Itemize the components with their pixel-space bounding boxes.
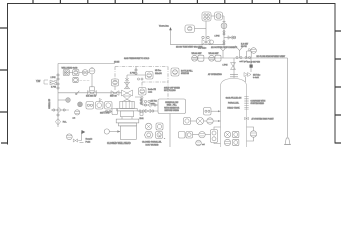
svg-text:BOTTLE FILL: BOTTLE FILL: [181, 71, 193, 73]
instrument PI (square, 4 dots): [63, 69, 69, 75]
wire: vent stack down: [287, 58, 289, 138]
svg-text:1 PSI: 1 PSI: [130, 73, 135, 75]
E-01 marks: [140, 113, 144, 121]
valve (E) on left riser: [44, 80, 57, 85]
tap with label on right wall: [245, 117, 249, 119]
check valve: [75, 91, 79, 95]
svg-text:SYSTEM HEAD: SYSTEM HEAD: [251, 102, 265, 105]
valve F.O. diamond: [55, 119, 60, 125]
svg-text:Sample: Sample: [86, 139, 94, 141]
flange-diamond-flange on riser: [51, 108, 69, 113]
wire: gas supply header horizontal: [58, 63, 115, 65]
instrument cluster by wellhead: circle X: [145, 123, 152, 130]
wellhead stack: spool 2: [121, 111, 134, 117]
signal line (dash-dot) to bottle fill: [115, 67, 168, 100]
svg-text:AT OPERATING: AT OPERATING: [208, 73, 222, 76]
valve on wellhead feed: [111, 91, 119, 96]
bottle fill instrument 2: [139, 88, 147, 96]
svg-text:1 PSI: 1 PSI: [51, 77, 56, 79]
wellhead left gauge: circles and box: [104, 109, 118, 115]
svg-text:Vent to Atm: Vent to Atm: [159, 25, 169, 28]
vessel: head tank walls: [221, 85, 247, 147]
svg-text:PARALLEL: PARALLEL: [228, 102, 240, 105]
wire: vent header: [171, 44, 225, 46]
wellhead stack: cone: [123, 99, 131, 101]
wellhead stack: ribbed spool: [120, 101, 134, 108]
svg-text:1/2 MI: 1/2 MI: [114, 62, 120, 64]
pressure regulator: [221, 22, 227, 29]
chemical line with valve: [137, 109, 158, 113]
instrument PIC (square, hatched circle): [73, 69, 79, 75]
svg-text:HEAD TANK: HEAD TANK: [227, 107, 240, 110]
ejector assembly: [122, 90, 133, 99]
instrument PY (square with circle) below row: [73, 77, 89, 82]
flange below: [57, 114, 59, 116]
relief valve Y1: [219, 46, 228, 58]
frame tick marks top: [33, 0, 307, 4]
relief valve Y2: [235, 46, 244, 58]
wire: left riser with flanges: [57, 64, 59, 128]
svg-text:GAS-FILLED-IN: GAS-FILLED-IN: [226, 97, 242, 100]
instrument at branch end: [146, 72, 154, 80]
wire: regulator drop: [223, 16, 225, 45]
svg-text:SET 30: SET 30: [110, 96, 118, 98]
flanges under instrument: [141, 97, 143, 99]
sample point: riser with flag: [78, 130, 85, 143]
instrument square two circles: [86, 102, 94, 110]
control valve CV1 with actuator: [88, 87, 97, 96]
frame tick marks left: [0, 28, 8, 143]
vent funnel: [284, 138, 291, 145]
svg-text:1/2 TUBING: 1/2 TUBING: [48, 99, 50, 109]
svg-text:SKID - FILL: SKID - FILL: [167, 105, 177, 107]
solenoid drop to tank: [244, 58, 253, 82]
frame tick marks right: [335, 31, 341, 143]
flanges on branch: [138, 78, 140, 80]
sample point: instrument circle: [66, 134, 72, 140]
wire: to chemical box: [142, 104, 158, 106]
valve vertical on nozzle riser: [231, 63, 236, 70]
wellhead right: circle pair with note: [144, 100, 150, 102]
wire: ejector riser: [126, 75, 128, 89]
note box: chemical injection: [158, 99, 186, 114]
svg-text:1/2x1/4: 1/2x1/4: [155, 73, 162, 75]
instrument square hatched: [211, 12, 223, 20]
instrument cluster: hexagon: [144, 132, 153, 138]
instrument cluster: square with circle: [156, 123, 163, 130]
gray dot tap on riser: [58, 98, 70, 103]
instrument hatched circle A: [78, 102, 83, 107]
wire: branch at ejector: [127, 74, 146, 76]
svg-text:1/2 OD TUBE VENT GAS LINE: 1/2 OD TUBE VENT GAS LINE: [176, 46, 203, 49]
wellhead stack: casing body: [120, 126, 136, 139]
svg-text:COMPARE WITH: COMPARE WITH: [251, 100, 266, 103]
wellhead right: vertical gauge line: [135, 97, 142, 105]
flange circles on left riser: [57, 74, 59, 89]
instrument row 1 left of tank: [204, 108, 221, 116]
instrument hatched circle on header: [251, 48, 257, 54]
instrument row 3 left of tank: [179, 127, 221, 144]
wire: blowdown riser: [205, 21, 207, 45]
svg-text:Point: Point: [86, 141, 91, 144]
svg-text:conn: conn: [148, 92, 152, 94]
inlet with arrow into casing: [104, 129, 120, 134]
svg-text:WELLHEAD GAS: WELLHEAD GAS: [62, 66, 78, 69]
instrument above second valve: [112, 79, 119, 90]
instrument square with circle: [105, 102, 113, 110]
svg-text:1 PSI: 1 PSI: [215, 36, 220, 38]
vent to atmosphere arrow: [169, 27, 172, 45]
svg-text:DCU WORKS: DCU WORKS: [146, 144, 160, 146]
instrument circle with note: [75, 110, 80, 115]
sample point: needle valve: [73, 139, 77, 142]
nozzle flanges: [230, 74, 238, 77]
wire: regulator branch: [224, 37, 236, 39]
svg-text:WITH INHIBITOR: WITH INHIBITOR: [164, 107, 180, 109]
wire: instrument row links: [69, 72, 89, 74]
svg-text:MI-Tee: MI-Tee: [155, 70, 162, 72]
instrument row 2 left of tank: [184, 117, 221, 124]
svg-text:F.O.: F.O.: [63, 122, 67, 124]
flanges on header: [236, 57, 238, 59]
level gauge ticks on right wall: [244, 97, 248, 110]
valve vertical above ejector: [124, 78, 129, 89]
vessel: head tank dome: [221, 79, 247, 86]
flanges under regulator: [223, 31, 225, 33]
svg-text:WR-02 SET: WR-02 SET: [209, 53, 220, 55]
instrument hatched circle: [89, 68, 95, 74]
svg-text:CLOSED WELLHEAD: CLOSED WELLHEAD: [107, 142, 131, 145]
svg-text:STATION: STATION: [181, 72, 190, 75]
wire: wellhead feed line: [58, 92, 122, 94]
svg-text:WR-01 SET: WR-01 SET: [192, 53, 203, 55]
svg-text:set 1 psi: set 1 psi: [240, 60, 248, 63]
wire: tank inlet header: [192, 57, 288, 59]
svg-text:E-1 SET AT: E-1 SET AT: [86, 95, 97, 98]
svg-text:1 PSI: 1 PSI: [223, 65, 228, 67]
svg-text:Y.W: Y.W: [36, 80, 41, 83]
svg-text:CHEMICAL INJ: CHEMICAL INJ: [165, 101, 178, 104]
svg-text:NOT FILLING: NOT FILLING: [164, 90, 176, 92]
bottle fill station instrument: [171, 68, 179, 76]
control valve CV1 riser: [91, 74, 93, 87]
svg-text:GAS PRESSURE TO HOLD: GAS PRESSURE TO HOLD: [124, 57, 150, 60]
svg-text:CLOSED PARALLEL: CLOSED PARALLEL: [142, 141, 162, 144]
wellhead stack: lower flange: [118, 123, 136, 126]
instrument box with circle: [185, 25, 206, 33]
blowdown valve cluster on riser: [202, 36, 214, 44]
svg-text:1/2 COPPER PIPE CONNECT: 1/2 COPPER PIPE CONNECT: [211, 47, 238, 49]
border frame: [8, 4, 336, 145]
wire: tank nozzle riser: [233, 58, 235, 78]
SV pair 1: [192, 55, 204, 61]
svg-text:SET 1 PSI: SET 1 PSI: [100, 113, 110, 115]
svg-text:AT SYSTEM HIGH POINT: AT SYSTEM HIGH POINT: [252, 117, 275, 120]
instrument square 4 dots top: [202, 12, 211, 21]
svg-text:1 PSI: 1 PSI: [51, 87, 56, 89]
svg-text:Bottle Fill: Bottle Fill: [148, 88, 156, 91]
flange-diamond-flange: [144, 103, 156, 107]
instrument cluster: square with X circle: [156, 131, 166, 139]
svg-text:E-01: E-01: [140, 118, 144, 120]
svg-text:BEFORE USING: BEFORE USING: [165, 110, 180, 112]
instrument circle pair: [82, 70, 88, 76]
instrument with flag: [96, 99, 104, 110]
svg-text:Set @ 30 PSIG: Set @ 30 PSIG: [247, 61, 260, 64]
SV pair 2: [209, 55, 221, 61]
svg-text:NO FLOW ATMOSPHERIC VENT: NO FLOW ATMOSPHERIC VENT: [257, 55, 286, 58]
instrument box with flag on header: [246, 49, 251, 59]
wellhead stack: studs: [122, 117, 132, 119]
svg-text:30 PSI: 30 PSI: [241, 46, 247, 48]
gauge pot loop: [247, 127, 257, 141]
instrument bottom left of tank: [196, 140, 202, 146]
wellhead stack: flange bar: [117, 109, 137, 111]
valve on branch: [228, 36, 232, 40]
wire: line down from note box: [169, 114, 171, 148]
svg-text:to tank: to tank: [253, 76, 259, 79]
legend cluster inside tank bottom: [224, 131, 239, 145]
wellhead stack: cap flange: [116, 119, 139, 123]
